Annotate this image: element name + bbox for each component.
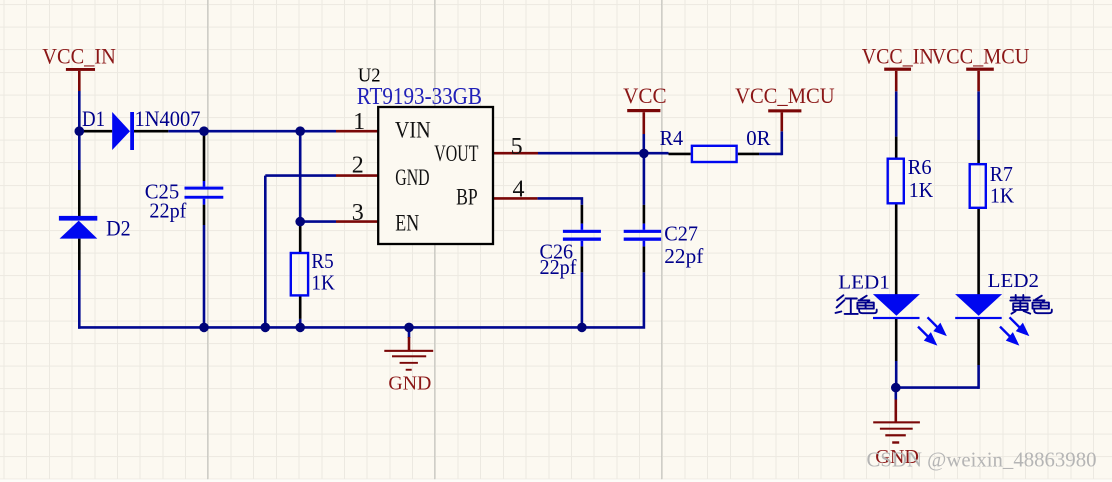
- svg-text:22pf: 22pf: [149, 199, 186, 223]
- svg-text:R4: R4: [660, 126, 684, 150]
- svg-text:4: 4: [513, 176, 525, 202]
- svg-text:22pf: 22pf: [540, 255, 577, 279]
- svg-text:LED2: LED2: [988, 270, 1039, 292]
- svg-text:GND: GND: [388, 372, 431, 394]
- svg-text:0R: 0R: [746, 126, 770, 150]
- svg-text:VIN: VIN: [395, 117, 431, 142]
- svg-text:VCC: VCC: [623, 83, 667, 108]
- svg-text:RT9193-33GB: RT9193-33GB: [357, 84, 482, 110]
- svg-text:GND: GND: [395, 165, 429, 190]
- svg-text:U2: U2: [358, 64, 381, 86]
- svg-text:VCC_MCU: VCC_MCU: [735, 83, 835, 108]
- svg-text:D2: D2: [106, 216, 131, 241]
- svg-text:VCC_MCU: VCC_MCU: [932, 44, 1030, 69]
- svg-text:BP: BP: [456, 185, 478, 210]
- svg-text:VCC_IN: VCC_IN: [42, 44, 116, 69]
- svg-text:EN: EN: [395, 211, 419, 236]
- svg-text:R5: R5: [311, 249, 333, 273]
- svg-text:1K: 1K: [311, 271, 334, 295]
- svg-text:R6: R6: [908, 155, 932, 179]
- svg-text:1K: 1K: [990, 184, 1014, 208]
- svg-text:R7: R7: [990, 162, 1013, 186]
- svg-text:D1: D1: [82, 106, 105, 131]
- svg-text:22pf: 22pf: [664, 244, 703, 268]
- svg-text:LED1: LED1: [838, 271, 890, 293]
- svg-text:1K: 1K: [909, 178, 933, 202]
- svg-text:VCC_IN: VCC_IN: [862, 44, 934, 69]
- svg-text:CSDN @weixin_48863980: CSDN @weixin_48863980: [867, 448, 1097, 472]
- svg-text:VOUT: VOUT: [434, 141, 478, 166]
- svg-text:1N4007: 1N4007: [135, 106, 201, 131]
- svg-text:3: 3: [352, 200, 364, 226]
- svg-text:C27: C27: [664, 222, 698, 246]
- svg-text:1: 1: [353, 109, 365, 135]
- svg-text:5: 5: [511, 134, 523, 160]
- svg-text:2: 2: [352, 153, 364, 179]
